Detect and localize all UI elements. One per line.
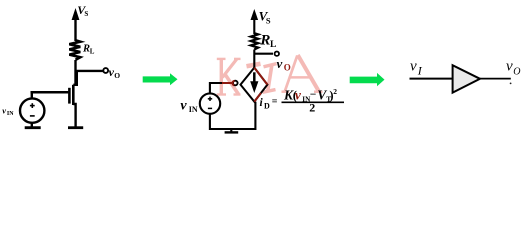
svg-text:O: O: [513, 67, 520, 78]
svg-text:O: O: [284, 62, 291, 72]
svg-text:L: L: [90, 47, 95, 55]
svg-text:v: v: [2, 105, 6, 115]
svg-text:−: −: [310, 89, 317, 101]
svg-text:v: v: [506, 58, 513, 74]
svg-text:IN: IN: [189, 105, 198, 114]
svg-text:R: R: [259, 32, 270, 48]
svg-text:=: =: [272, 97, 278, 108]
svg-text:v: v: [277, 56, 283, 71]
svg-text:D: D: [264, 101, 270, 110]
svg-text:S: S: [266, 16, 271, 26]
svg-text:O: O: [114, 71, 120, 80]
svg-text:v: v: [295, 87, 302, 102]
svg-text:v: v: [410, 58, 417, 74]
svg-text:L: L: [270, 40, 276, 50]
svg-text:S: S: [84, 10, 88, 18]
svg-text:2: 2: [333, 87, 337, 96]
svg-text:v: v: [180, 99, 187, 114]
svg-text:IN: IN: [7, 111, 14, 117]
